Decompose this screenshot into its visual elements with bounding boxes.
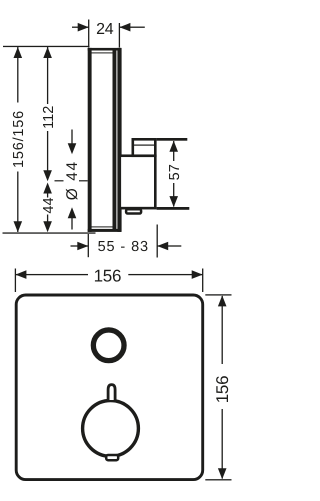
dimension 24 arrows and leaders [72,23,145,32]
dimension 57 (body height) [167,141,183,207]
svg-text:24: 24 [96,21,114,38]
dimension 156 height: top extension line [205,294,231,295]
dimension Ø44 (handle diameter, side view) [64,130,81,230]
faceplate profile (side view) [88,48,122,232]
wire: top extension line (side view, left) [3,46,90,47]
temperature knob (large circle) [83,401,139,457]
dimension 156 width: extension line right [202,269,203,293]
svg-text:156/156: 156/156 [11,110,27,168]
front plate (front view, rounded square) [16,295,203,480]
dimension 156/156 (overall height, side view) [11,47,27,232]
svg-text:156: 156 [213,376,232,403]
wire: 57 bottom extension (body bottom edge extended) [157,207,190,210]
centreline tick left of Ø44 text [55,180,64,181]
dimension 156 (plate width) [15,267,202,286]
dimension 55 - 83 (installation depth) [71,239,182,255]
dimension 44 (knob centre to bottom edge) [41,183,57,233]
dimension 112 (top edge to knob centre) [41,47,57,181]
svg-text:57: 57 [167,164,183,180]
svg-text:112: 112 [41,106,57,129]
valve body top stop box [133,139,156,155]
svg-text:Ø 44: Ø 44 [64,160,81,200]
dimension 156 height: bottom extension line [205,479,231,480]
dimension 156 width: extension line left [15,269,16,293]
wire: 57 top extension (box top edge extended) [157,138,188,141]
dimension 24 (plate depth) extension line left [88,20,89,48]
svg-text:156: 156 [94,267,121,286]
svg-text:44: 44 [41,197,57,213]
wire: bottom extension line (side view, left) [3,232,96,233]
svg-text:55 - 83: 55 - 83 [98,239,149,255]
knob bottom safety stop button [106,455,118,460]
select button (small ring) [93,330,124,361]
knob top index pin [108,385,115,400]
centreline tick right of Ø44 text through plate edge [79,180,95,181]
55-83 extension line right (body rear) [157,225,158,258]
concealed valve body (side view) [120,156,156,208]
55-83 extension line left (plate face) [88,234,89,257]
dimension 156 (plate height) [213,295,232,479]
valve body bottom clip tab [126,209,141,213]
dimension 24 extension line right [119,23,120,48]
